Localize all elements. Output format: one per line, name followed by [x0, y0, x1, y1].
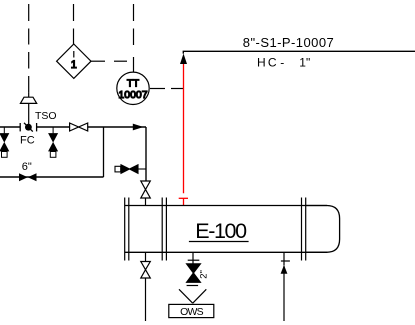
label E-100 underline: [189, 241, 249, 243]
drain valve with cap right: [49, 127, 57, 157]
wire riser corner down to exchanger inlet valve: [145, 127, 147, 181]
svg-text:10007: 10007: [118, 89, 147, 101]
svg-text:8"-S1-P-10007: 8"-S1-P-10007: [243, 35, 334, 50]
funnel open drain: [179, 289, 206, 303]
wire dashed signal from interlock diamond to junction: [91, 60, 127, 62]
wire actuator signal stub: [28, 93, 30, 98]
capped closed drain valve on riser: [115, 165, 146, 174]
svg-text:E-100: E-100: [195, 219, 247, 243]
svg-text:1: 1: [71, 59, 77, 71]
gate valve vertical at exchanger bottom nozzle: [141, 252, 151, 278]
valve closed on 6 inch line: [19, 173, 37, 181]
heat exchanger E-100 shell: [125, 206, 340, 253]
closed drain valve 2" to OWS: [187, 252, 201, 285]
tubesheet flange left: [125, 198, 129, 261]
wire red hot line riser: [183, 64, 185, 193]
svg-text:1": 1": [299, 55, 310, 69]
wire bypass branch down: [103, 127, 105, 177]
svg-text:FC: FC: [20, 134, 35, 146]
wire process line gate valve to corner: [88, 126, 146, 128]
node red tie-in T at exchanger nozzle: [179, 198, 188, 205]
gate valve vertical at exchanger top nozzle: [141, 181, 151, 206]
wire process line left edge to control valve: [0, 126, 20, 128]
svg-text:TSO: TSO: [35, 110, 57, 122]
arrow flow up into exchanger: [281, 265, 288, 274]
svg-text:OWS: OWS: [180, 306, 203, 318]
node OWS box: [169, 304, 214, 317]
tubesheet flange middle: [162, 198, 166, 261]
wire dashed instrument signal down to TT-10007: [133, 4, 135, 73]
wire dashed signal from TT-10007 to pipe tap: [150, 88, 184, 90]
nozzle flange tick bottom right inlet: [281, 252, 290, 265]
wire process line control valve to gate valve: [37, 126, 70, 128]
tubesheet flange right: [302, 198, 306, 261]
svg-text:TT: TT: [127, 78, 139, 89]
actuator diaphragm of TSO control valve: [20, 97, 36, 103]
gate valve on process line: [70, 123, 88, 131]
wire 6 inch bypass line: [0, 176, 104, 178]
wire inlet line bottom right: [283, 266, 285, 321]
valve stem: [28, 103, 30, 124]
wire dashed instrument signal into interlock diamond: [73, 4, 75, 44]
wire dashed instrument signal to TSO valve actuator: [28, 4, 30, 93]
drain valve with cap left: [0, 127, 8, 157]
wire outlet line down from bottom valve: [145, 278, 147, 321]
svg-text:HC: HC: [257, 55, 279, 69]
arrow flow right toward exchanger: [133, 124, 144, 131]
svg-text:6": 6": [22, 161, 32, 173]
instrument bubble TT 10007: [117, 72, 149, 104]
pipe line 8"-S1-P-10007: [183, 51, 415, 53]
control valve TSO FC: [20, 123, 36, 132]
svg-text:-: -: [280, 55, 284, 69]
svg-text:2": 2": [199, 270, 210, 279]
arrow flow up into pipe header: [180, 54, 187, 65]
interlock diamond I-1: [57, 44, 91, 78]
